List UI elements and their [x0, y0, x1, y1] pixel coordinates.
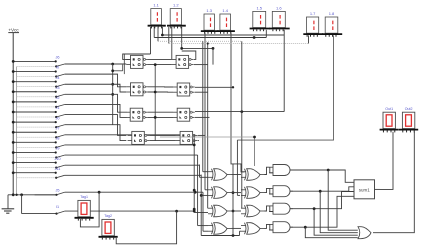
wire 1.1 pin c	[157, 27, 159, 41]
wire A1 second input	[270, 167, 273, 173]
wire 1.2 pin a0	[168, 27, 170, 44]
switch S14 (I1)	[22, 195, 65, 215]
wire U8 out2 to net	[198, 140, 199, 142]
wire U1 out2 to U5 in2	[148, 64, 172, 66]
wire 1.2 pin b	[181, 27, 183, 48]
xor gate X7	[241, 205, 265, 217]
wire X4 out to X8	[232, 227, 242, 229]
wire bus v8 (x207.7)	[207, 42, 209, 208]
wire A4 output to sum	[290, 196, 354, 228]
wire bus v12 (x254.5)	[160, 136, 256, 166]
xor gate X2	[208, 187, 232, 199]
wire A1 branch to OR	[328, 170, 358, 230]
and gate A3	[269, 203, 293, 214]
wire 1.7 pin	[308, 35, 310, 43]
wire 1.6 pin	[195, 30, 284, 113]
wire net D (y43.5)	[169, 43, 309, 45]
wire bus v6 (x202.8 top)	[203, 41, 208, 172]
wire S14 output long	[65, 210, 195, 213]
svg-text:J2: J2	[55, 96, 59, 100]
wire S12 output to gate column	[65, 174, 202, 176]
wire U3 out2 to U7 in2	[148, 116, 173, 118]
wire bus v1 (x194)	[193, 135, 208, 213]
wire sum out to Out1	[380, 132, 393, 190]
wire X3 out to X7	[232, 210, 242, 212]
wire bus v10 (x237.2)	[237, 140, 240, 195]
svg-text:1.5: 1.5	[256, 5, 262, 10]
svg-text:1.6: 1.6	[276, 5, 282, 10]
svg-text:J4: J4	[55, 76, 59, 80]
wire loop below U1	[111, 65, 122, 73]
and gate A4	[269, 222, 293, 233]
wire U6 out2 to bus	[195, 91, 208, 93]
wire U4 out1 to U8 in1	[149, 134, 176, 136]
switch S3 (J4)	[12, 76, 65, 88]
wire A4 second input	[270, 224, 273, 230]
switch S7 (J0)	[12, 116, 65, 128]
svg-text:J7: J7	[55, 126, 59, 130]
xor gate X3	[208, 205, 232, 217]
wire X8 out to A4	[265, 224, 270, 228]
switch S8 (J7)	[12, 126, 65, 138]
wire ground bus bottom	[8, 193, 57, 196]
switch S5 (J2)	[12, 96, 65, 108]
indicator 1.1	[148, 3, 166, 29]
wire bus v5 (x203)	[203, 192, 208, 231]
wire net C (y41)	[158, 40, 242, 42]
switch S13 (J5)	[35, 188, 65, 196]
wire U2 out2 to U6 in2	[148, 91, 173, 93]
wire A4 branch to OR	[305, 227, 358, 238]
wire A2 branch to OR	[320, 191, 358, 233]
svg-text:1.2: 1.2	[173, 3, 179, 8]
wire X2 out to X6	[232, 192, 242, 194]
buffer U3	[126, 108, 148, 121]
wire bus v11 (x239.8)	[241, 41, 243, 208]
wire A3 output to sum	[290, 192, 354, 211]
wire S13 output long	[65, 191, 203, 194]
wire S7 output to U4 pin 2	[65, 125, 127, 141]
indicator 1.2	[167, 3, 186, 29]
ground	[2, 195, 15, 213]
indicator 1.5	[250, 5, 271, 31]
buffer U4	[128, 131, 150, 144]
wire U3 out1 to U7 in1	[148, 111, 173, 113]
svg-text:+Vcc: +Vcc	[8, 27, 19, 32]
wire S8 output to gate column	[65, 134, 195, 136]
buffer U2	[126, 83, 148, 96]
svg-text:J10: J10	[54, 157, 60, 161]
buffer U1	[126, 55, 148, 68]
switch S12 (J11)	[12, 167, 65, 179]
buffer U8	[176, 131, 198, 144]
wire vertical link near U1 a	[123, 54, 125, 74]
svg-text:1.8: 1.8	[329, 11, 335, 16]
indicator 1.3	[201, 8, 219, 34]
wire S10 output to gate column	[65, 154, 198, 156]
wire bus v3 (x199.5)	[200, 165, 209, 178]
logic block U9 (sum)	[354, 180, 380, 199]
indicator 1.4	[217, 8, 235, 34]
wire S3 output to U2 pin 2	[65, 84, 127, 92]
svg-text:J11: J11	[55, 167, 61, 171]
wire X1 out to X5	[232, 174, 242, 176]
wire display 1.1 to U1 pin 1	[123, 54, 151, 59]
wire U6 out to bus	[195, 86, 234, 88]
switch S6 (J1)	[12, 106, 65, 118]
indicator 1.6	[269, 5, 290, 31]
wire X7 out to A3	[265, 206, 270, 211]
wire 1.3 pin (bus)	[204, 32, 206, 189]
7-seg display Out2	[399, 107, 418, 132]
switch S2 (I0)	[12, 66, 65, 78]
svg-text:1.4: 1.4	[222, 8, 228, 13]
power +Vcc	[8, 27, 19, 32]
wire U8 out to net (y139.5)	[198, 134, 205, 136]
wire S6 output to U4 pin 1	[65, 115, 127, 136]
wire U1 out1 to U5 in1	[148, 58, 172, 60]
wire enable backbone x155	[154, 63, 157, 140]
wire net A (y35)	[161, 34, 284, 37]
svg-text:Tag1: Tag1	[80, 195, 88, 199]
svg-text:1.3: 1.3	[206, 8, 212, 13]
wire X6 out to A2	[265, 188, 270, 192]
svg-text:sum1: sum1	[359, 187, 371, 192]
svg-text:J8: J8	[55, 137, 59, 141]
xor gate X4	[208, 223, 232, 235]
wire bus v2 (x197.6)	[198, 155, 208, 226]
wire 1.1 pin b	[153, 27, 155, 38]
switch S4 (J3)	[12, 86, 65, 98]
buffer U7	[173, 108, 195, 121]
wire S11 output to gate column	[65, 164, 200, 166]
7-seg display Tag2	[99, 214, 118, 239]
svg-text:1.1: 1.1	[153, 3, 159, 8]
svg-text:Out2: Out2	[405, 107, 413, 111]
wire bus v13 (x213)	[212, 48, 214, 64]
wire S5 output to U3 pin 2	[65, 104, 127, 117]
7-seg display Out1	[380, 107, 399, 132]
xor gate X1	[208, 169, 232, 181]
wire 1.8 pin (to sum area)	[237, 35, 333, 140]
wire U7 out2 to bus	[195, 116, 210, 118]
wire S2 output to U2 pin 1	[65, 74, 127, 87]
wire S1 output to U1 pin 2	[65, 63, 127, 66]
svg-text:J1: J1	[55, 106, 59, 110]
buffer U5	[172, 55, 194, 68]
svg-text:I1: I1	[56, 205, 59, 209]
wire bus v4 (x201)	[200, 175, 241, 237]
wire A3 branch to OR	[314, 209, 358, 236]
wire distribution vertical x112.7	[111, 64, 114, 125]
svg-text:1.7: 1.7	[310, 11, 316, 16]
svg-text:Out1: Out1	[385, 107, 393, 111]
xor gate X5	[241, 169, 265, 181]
svg-text:J9: J9	[55, 147, 59, 151]
xor gate X6	[241, 187, 265, 199]
indicator 1.7	[303, 11, 323, 37]
svg-text:Tag2: Tag2	[104, 214, 112, 218]
wire A3 second input	[270, 206, 273, 212]
and gate A2	[269, 186, 293, 197]
wire U5 out1 hat to 1.2 pin	[182, 51, 196, 59]
wire 1.2 pin a	[171, 27, 173, 59]
wire S4 output to U3 pin 1	[65, 94, 127, 112]
wire 1.1 pin d	[161, 27, 163, 35]
indicator 1.8	[322, 11, 342, 37]
switch S11 (J10)	[12, 157, 65, 169]
svg-text:J5: J5	[55, 188, 59, 192]
wire A2 output to sum	[290, 187, 354, 193]
wire S9 output to gate column	[65, 144, 195, 146]
switch S9 (J8)	[12, 137, 65, 149]
or gate O1	[358, 227, 371, 239]
wire O1 out to Out2	[373, 132, 414, 233]
wire net E (y47.5)	[180, 47, 214, 50]
svg-text:J6: J6	[55, 56, 59, 60]
wire U5 out2 to bus	[194, 64, 208, 66]
wire GND rail	[16, 67, 18, 195]
switch S1 (J6)	[12, 56, 65, 68]
wire U2 out1 to U6 in1	[148, 86, 173, 88]
wire Tag1 pin	[80, 192, 99, 227]
wire net B (y37.5)	[154, 36, 266, 39]
wire A2 second input	[270, 188, 273, 194]
wire U4 out2 to U8 in2	[149, 140, 176, 142]
wire 1.1 pin a	[150, 27, 152, 54]
svg-text:I0: I0	[56, 66, 59, 70]
svg-text:J3: J3	[55, 86, 59, 90]
wire 1.4 pin	[231, 32, 245, 172]
wire A1 output to sum	[290, 169, 354, 183]
svg-text:J0: J0	[55, 116, 59, 120]
buffer U6	[173, 83, 195, 96]
xor gate X8	[241, 223, 265, 235]
switch S10 (J9)	[12, 147, 65, 159]
wire 1.5 pin	[265, 30, 267, 38]
wire bus v9 (x233)	[232, 164, 235, 236]
wire bus v7 (x205 from 1.3)	[205, 189, 208, 191]
wire Tag2 pin	[116, 211, 176, 244]
and gate A1	[269, 165, 293, 176]
wire X5 out to A1	[265, 167, 270, 174]
wire VCC rail	[12, 33, 14, 195]
7-seg display Tag1	[75, 195, 94, 220]
